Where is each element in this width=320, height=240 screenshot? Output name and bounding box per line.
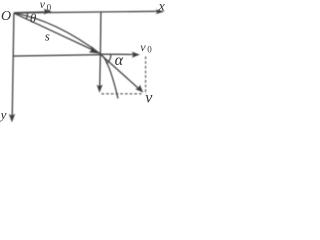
v arrowhead xyxy=(135,85,143,93)
angle theta arc xyxy=(26,13,27,19)
v0 vector at origin xyxy=(14,11,46,14)
svg-text:v: v xyxy=(145,90,153,107)
v0 vector at P xyxy=(100,53,134,55)
vy arrowhead xyxy=(97,85,103,93)
vy component arrow (vertical, downward from P) xyxy=(99,54,102,88)
svg-text:0: 0 xyxy=(147,45,152,55)
s arrowhead at point P xyxy=(89,46,101,54)
svg-text:v: v xyxy=(40,0,46,11)
horizontal projection line from y-axis to P xyxy=(13,55,100,56)
x-axis xyxy=(14,11,160,13)
svg-text:v: v xyxy=(140,40,146,54)
x-axis arrowhead xyxy=(156,9,165,14)
dashed vertical line (component construction) xyxy=(145,57,147,95)
v0 origin arrowhead xyxy=(44,9,52,15)
svg-text:x: x xyxy=(158,0,166,15)
svg-text:0: 0 xyxy=(47,2,52,12)
angle alpha arc xyxy=(106,55,111,64)
svg-text:α: α xyxy=(115,52,124,69)
svg-text:s: s xyxy=(45,29,50,44)
dashed horizontal line (component construction) xyxy=(102,93,142,95)
svg-text:θ: θ xyxy=(30,10,37,25)
displacement line s xyxy=(14,13,94,50)
resultant velocity vector v xyxy=(100,54,139,89)
svg-text:O: O xyxy=(1,9,11,24)
vertical projection line from x-axis to P xyxy=(99,12,102,54)
trajectory curve xyxy=(14,13,118,99)
v0-at-P arrowhead xyxy=(132,52,140,58)
y-axis xyxy=(12,13,14,118)
y-axis arrowhead xyxy=(9,114,15,123)
svg-text:y: y xyxy=(0,107,7,122)
